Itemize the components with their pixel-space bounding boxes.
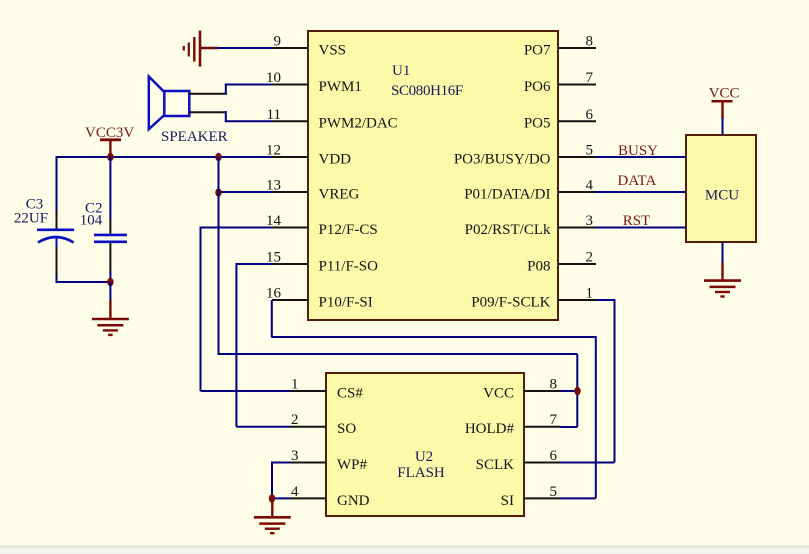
svg-text:P08: P08 <box>527 258 550 274</box>
U1 designator <box>392 63 410 79</box>
svg-text:SPEAKER: SPEAKER <box>161 129 228 145</box>
svg-text:PO6: PO6 <box>524 79 551 95</box>
MCU label <box>705 188 739 204</box>
net label VCC3V <box>85 125 134 141</box>
svg-text:3: 3 <box>291 448 299 464</box>
svg-text:SCLK: SCLK <box>476 457 515 473</box>
junction node U2 VCC <box>574 387 580 396</box>
wire net F-SO <box>236 263 290 427</box>
U2 pin 5 SI <box>501 484 561 509</box>
U1 pin 2 P08 <box>527 250 596 275</box>
svg-text:HOLD#: HOLD# <box>465 421 515 437</box>
U1 pin 3 P02/RST/CLk <box>465 213 596 238</box>
U1 pin 14 P12/F-CS <box>266 213 378 238</box>
U2 pin 1 CS# <box>290 377 363 402</box>
svg-text:SC080H16F: SC080H16F <box>391 83 463 99</box>
net label DATA <box>618 173 657 189</box>
svg-text:7: 7 <box>586 70 594 86</box>
svg-text:VCC3V: VCC3V <box>85 125 134 141</box>
svg-text:16: 16 <box>266 286 282 302</box>
IC U2 body <box>326 373 524 516</box>
svg-text:VREG: VREG <box>319 186 360 202</box>
U1 pin 8 PO7 <box>524 34 596 59</box>
svg-text:PWM2/DAC: PWM2/DAC <box>319 116 398 132</box>
IC U1 body <box>308 31 558 320</box>
U1 pin 4 P01/DATA/DI <box>464 178 596 203</box>
svg-text:9: 9 <box>274 34 282 50</box>
svg-text:VCC: VCC <box>709 86 740 102</box>
svg-text:1: 1 <box>586 286 594 302</box>
wire VCC to MCU <box>722 118 724 136</box>
svg-text:6: 6 <box>550 448 558 464</box>
U1 pin 7 PO6 <box>524 70 596 95</box>
speaker terminal pins <box>189 94 226 113</box>
svg-text:U2: U2 <box>415 449 433 465</box>
U1 pin 15 P11/F-SO <box>266 250 378 275</box>
svg-text:U1: U1 <box>392 63 410 79</box>
svg-text:VDD: VDD <box>319 151 352 167</box>
C3 designator <box>26 196 44 212</box>
svg-text:6: 6 <box>586 107 594 123</box>
C2 value 104 <box>80 213 103 229</box>
svg-text:WP#: WP# <box>337 457 368 473</box>
U2 designator <box>415 449 433 465</box>
junction node VCC3V/rail <box>107 153 113 162</box>
wire net F-CS <box>201 227 291 392</box>
svg-text:PO5: PO5 <box>524 116 551 132</box>
U2 pin 7 HOLD# <box>465 412 561 437</box>
junction node cap ground <box>107 278 113 287</box>
svg-text:VCC: VCC <box>483 385 514 401</box>
U1 pin 6 PO5 <box>524 107 596 132</box>
ground symbol (U2 GND) <box>254 498 291 533</box>
svg-text:PO7: PO7 <box>524 42 551 58</box>
svg-text:DATA: DATA <box>618 173 657 189</box>
ground symbol (MCU) <box>704 263 741 297</box>
svg-text:P12/F-CS: P12/F-CS <box>319 222 378 238</box>
ground symbol (VSS, rotated) <box>184 31 218 67</box>
svg-text:PWM1: PWM1 <box>319 79 362 95</box>
svg-text:FLASH: FLASH <box>397 465 445 481</box>
junction node rail/VCC net <box>215 153 221 162</box>
U1 pin 13 VREG <box>266 178 360 203</box>
svg-text:SO: SO <box>337 421 356 437</box>
wire capacitor bottom rail <box>57 281 111 283</box>
wire net DATA <box>596 191 686 193</box>
svg-text:P09/F-SCLK: P09/F-SCLK <box>471 294 550 310</box>
U2 pin 3 WP# <box>290 448 368 473</box>
speaker LS1 symbol <box>149 77 190 130</box>
svg-text:8: 8 <box>550 377 558 393</box>
wire net F-SI <box>272 300 596 498</box>
svg-text:PO3/BUSY/DO: PO3/BUSY/DO <box>454 151 551 167</box>
net label RST <box>623 213 651 229</box>
wire net VCC3V to U2 <box>218 157 579 427</box>
wire net BUSY <box>596 156 686 158</box>
svg-text:4: 4 <box>291 484 299 500</box>
capacitor C3 pins <box>56 156 58 283</box>
wire net F-SCLK <box>561 299 615 463</box>
svg-text:P02/RST/CLk: P02/RST/CLk <box>465 222 551 238</box>
svg-text:VSS: VSS <box>319 42 347 58</box>
svg-text:22UF: 22UF <box>14 210 48 226</box>
wire net VSS <box>217 47 272 49</box>
U1 pin 10 PWM1 <box>266 70 362 95</box>
capacitor C2 pins <box>109 157 111 282</box>
wire VREG to VCC net <box>219 191 273 193</box>
U1 pin 1 P09/F-SCLK <box>471 286 596 311</box>
svg-text:GND: GND <box>337 493 370 509</box>
MCU block <box>686 135 756 242</box>
C2 designator <box>85 200 103 216</box>
wire net RST <box>596 227 686 229</box>
svg-text:5: 5 <box>586 143 594 159</box>
U1 pin 5 PO3/BUSY/DO <box>454 143 596 168</box>
junction node U2 GND <box>269 494 275 503</box>
svg-text:P11/F-SO: P11/F-SO <box>319 258 379 274</box>
U1 pin 9 VSS <box>272 34 346 59</box>
U2 value FLASH <box>397 465 445 481</box>
power symbol VCC (MCU) <box>712 101 733 118</box>
svg-text:2: 2 <box>291 412 299 428</box>
U2 pin 2 SO <box>290 412 356 437</box>
svg-text:BUSY: BUSY <box>618 143 658 159</box>
C3 value 22UF <box>14 210 48 226</box>
svg-text:RST: RST <box>623 213 651 229</box>
U2 pin 8 VCC <box>483 377 560 402</box>
wire speaker to PWM1 <box>225 85 272 95</box>
U1 value SC080H16F <box>391 83 463 99</box>
svg-text:P10/F-SI: P10/F-SI <box>319 294 373 310</box>
U2 pin 4 GND <box>290 484 370 509</box>
wire VDD rail <box>57 156 273 158</box>
svg-text:4: 4 <box>586 178 594 194</box>
speaker label SPEAKER <box>161 129 228 145</box>
U1 pin 12 VDD <box>266 143 351 168</box>
capacitor C3 plates <box>37 230 74 243</box>
svg-text:3: 3 <box>586 213 594 229</box>
ground symbol (capacitors) <box>92 282 129 335</box>
svg-text:2: 2 <box>586 250 594 266</box>
net label VCC <box>709 86 740 102</box>
svg-text:8: 8 <box>586 34 594 50</box>
U2 pin 6 SCLK <box>476 448 561 473</box>
wire WP# to ground <box>272 462 290 499</box>
svg-text:104: 104 <box>80 213 103 229</box>
U1 pin 11 PWM2/DAC <box>267 107 398 132</box>
capacitor C2 plates <box>94 235 127 242</box>
svg-text:MCU: MCU <box>705 188 739 204</box>
wire speaker to PWM2/DAC <box>225 111 272 121</box>
wire MCU to ground <box>722 242 724 264</box>
svg-text:SI: SI <box>501 493 514 509</box>
svg-text:CS#: CS# <box>337 385 363 401</box>
svg-text:P01/DATA/DI: P01/DATA/DI <box>464 186 550 202</box>
svg-text:1: 1 <box>291 377 299 393</box>
svg-text:5: 5 <box>550 484 558 500</box>
junction node VREG <box>215 188 221 197</box>
svg-text:7: 7 <box>550 412 558 428</box>
U1 pin 16 P10/F-SI <box>266 286 373 311</box>
power symbol VCC3V <box>100 140 121 157</box>
net label BUSY <box>618 143 658 159</box>
